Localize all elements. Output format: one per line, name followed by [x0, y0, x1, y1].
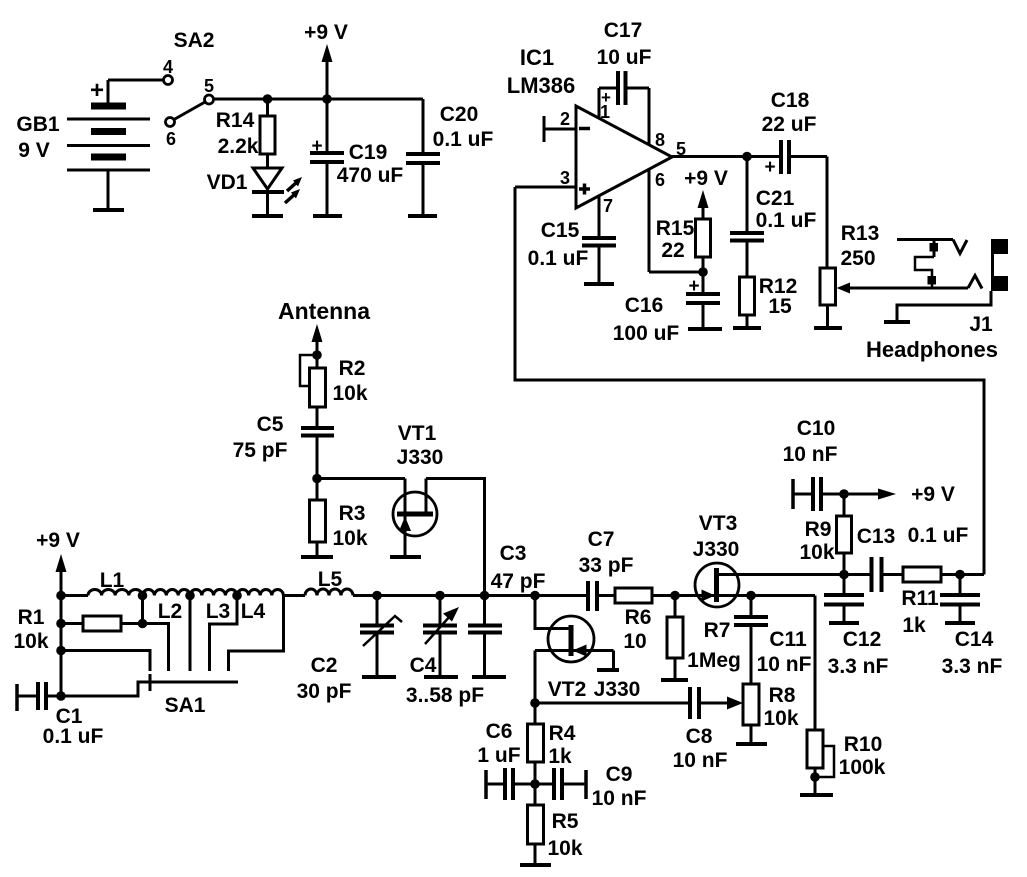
svg-text:3.3 nF: 3.3 nF — [828, 655, 889, 678]
capacitor C5 — [301, 428, 334, 479]
ground (C19) — [313, 214, 342, 218]
svg-text:10k: 10k — [332, 382, 367, 405]
svg-text:C21: C21 — [756, 187, 795, 210]
potentiometer R13 — [820, 268, 850, 328]
svg-text:C12: C12 — [843, 628, 882, 651]
svg-text:R5: R5 — [552, 810, 579, 833]
node (C2) — [372, 591, 382, 601]
svg-text:3..58 pF: 3..58 pF — [406, 684, 484, 707]
svg-text:R7: R7 — [704, 619, 731, 642]
svg-text:0.1 uF: 0.1 uF — [908, 524, 969, 547]
svg-text:47 pF: 47 pF — [491, 570, 546, 593]
svg-text:L1: L1 — [100, 569, 125, 592]
svg-text:C10: C10 — [797, 417, 836, 440]
svg-text:22: 22 — [661, 239, 684, 262]
node (rail/C1) — [56, 691, 66, 701]
node (rail/L1) — [56, 591, 66, 601]
svg-text:GB1: GB1 — [16, 113, 60, 136]
pin 2 input stub — [544, 116, 590, 142]
ground (C4) — [424, 675, 458, 679]
resistor R6 — [615, 588, 815, 603]
svg-text:10k: 10k — [547, 837, 582, 860]
ground (R8) — [736, 742, 767, 746]
capacitor C14 — [940, 575, 980, 624]
inductor L2 — [143, 590, 191, 596]
svg-text:+9 V: +9 V — [911, 483, 955, 506]
svg-text:15: 15 — [768, 295, 792, 318]
svg-text:C17: C17 — [604, 19, 643, 42]
node (VT2 gate tap) — [530, 591, 540, 601]
svg-text:0.1 uF: 0.1 uF — [756, 209, 817, 232]
wire (VT3 drain to R9) — [717, 573, 844, 576]
node (C11/R8) — [746, 591, 756, 601]
svg-text:1 uF: 1 uF — [477, 744, 520, 767]
ground (R13) — [814, 326, 842, 330]
battery GB1 — [67, 80, 163, 210]
+9V arrow (right) — [844, 489, 896, 500]
node (L3/L4) — [232, 591, 242, 601]
svg-text:R10: R10 — [844, 733, 883, 756]
node (VT2 gate bias) — [530, 698, 540, 708]
svg-text:C16: C16 — [625, 294, 664, 317]
svg-text:R3: R3 — [339, 502, 366, 525]
pin 7 wire — [598, 196, 601, 238]
svg-text:C11: C11 — [769, 628, 807, 651]
wire (VT1 drain to tank) — [426, 479, 485, 596]
+9V arrow (top) — [322, 44, 333, 99]
resistor R15 — [696, 219, 711, 272]
svg-text:5: 5 — [204, 76, 214, 96]
svg-text:10k: 10k — [763, 707, 798, 730]
svg-text:30 pF: 30 pF — [297, 680, 352, 703]
svg-text:R15: R15 — [656, 217, 695, 240]
svg-text:22 uF: 22 uF — [762, 113, 817, 136]
resistor R11 — [903, 567, 960, 582]
svg-text:2.2k: 2.2k — [218, 135, 259, 158]
transistor VT2 J330 — [535, 596, 614, 704]
potentiometer R8 — [743, 684, 759, 744]
svg-text:10 uF: 10 uF — [597, 46, 652, 69]
svg-text:8: 8 — [655, 130, 665, 150]
antenna arrow — [312, 324, 323, 355]
svg-text:0.1 uF: 0.1 uF — [528, 247, 589, 270]
potentiometer R10 (trimmer) — [807, 730, 834, 795]
svg-text:0.1 uF: 0.1 uF — [433, 128, 494, 151]
svg-text:C3: C3 — [500, 542, 527, 565]
svg-text:75 pF: 75 pF — [233, 439, 288, 462]
ground (C14) — [945, 621, 975, 625]
capacitor C12 — [824, 575, 864, 624]
ground (R5) — [520, 863, 551, 867]
LED VD1 — [252, 168, 302, 216]
node (L1/L2) — [138, 591, 148, 601]
svg-text:10 nF: 10 nF — [757, 653, 812, 676]
ground (C12) — [829, 621, 859, 625]
svg-text:10 nF: 10 nF — [592, 787, 647, 810]
svg-text:J330: J330 — [594, 678, 641, 701]
label GB1 — [16, 77, 104, 162]
op-amp IC1 LM386 — [576, 106, 672, 208]
svg-text:C7: C7 — [588, 528, 615, 551]
svg-text:R13: R13 — [841, 222, 880, 245]
ground (VT1 source) — [390, 555, 421, 559]
svg-text:C15: C15 — [541, 219, 580, 242]
svg-text:L3: L3 — [206, 600, 231, 623]
svg-text:VT2: VT2 — [548, 678, 587, 701]
ground (battery) — [93, 208, 124, 212]
svg-text:1k: 1k — [902, 614, 926, 637]
capacitor C9 — [535, 768, 586, 800]
node (R11/C14) — [955, 570, 965, 580]
resistor R12 — [740, 277, 755, 328]
resistor R4 — [528, 703, 544, 784]
capacitor C15 — [582, 238, 616, 284]
node (C5/R3/VT1 gate) — [312, 474, 322, 484]
node (rail/SA1 feed) — [56, 646, 66, 656]
svg-text:3.3 nF: 3.3 nF — [942, 655, 1003, 678]
pin 1 stub — [598, 88, 601, 118]
node (R9/C13/C12) — [839, 570, 849, 580]
node (R10 bottom) — [810, 772, 820, 782]
capacitor C3 — [468, 596, 502, 678]
capacitor C19 — [310, 99, 344, 216]
wire (pin3 feedback long) — [515, 187, 984, 575]
capacitor C20 — [406, 99, 440, 216]
node (C4) — [435, 591, 445, 601]
wire (rail to L1) — [61, 594, 88, 597]
capacitor C17 — [599, 71, 649, 105]
wire (main line down to R10) — [814, 596, 817, 731]
wire (L1L2 junction down) — [141, 596, 144, 624]
svg-text:1: 1 — [600, 102, 610, 122]
ground (R7) — [661, 678, 688, 682]
svg-text:R6: R6 — [625, 606, 652, 629]
svg-text:250: 250 — [840, 247, 875, 270]
svg-text:+: + — [764, 157, 775, 178]
switch SA2 — [164, 76, 268, 127]
switch SA1 contact 2 — [189, 596, 192, 672]
svg-text:Headphones: Headphones — [866, 337, 998, 362]
resistor R7 — [667, 596, 683, 681]
svg-text:10 nF: 10 nF — [783, 443, 838, 466]
svg-text:L4: L4 — [241, 600, 266, 623]
capacitor C13 — [844, 557, 903, 592]
pin 6 wire — [649, 169, 703, 272]
output wire pin 5 — [672, 155, 747, 158]
resistor R9 — [837, 494, 852, 575]
svg-text:L5: L5 — [318, 568, 343, 591]
+9V arrow (left rail) — [56, 554, 67, 696]
svg-text:C18: C18 — [771, 89, 810, 112]
wire (gate to VT1) — [317, 477, 405, 480]
svg-text:+: + — [90, 77, 104, 104]
svg-text:R14: R14 — [216, 109, 255, 132]
jack J1 wiper wire — [847, 287, 968, 290]
wire (bias to C8) — [535, 702, 690, 705]
ground (C3) — [472, 675, 506, 679]
variable capacitor C4 — [423, 596, 459, 678]
resistor R2 (trimmer) — [300, 355, 326, 428]
node (pin6/R15/C16) — [698, 267, 708, 277]
capacitor C11 — [734, 596, 768, 685]
svg-text:470 uF: 470 uF — [337, 164, 404, 187]
svg-text:3: 3 — [560, 168, 570, 188]
svg-text:10: 10 — [623, 630, 646, 653]
variable capacitor C2 — [360, 596, 402, 678]
inductor L4 — [237, 589, 283, 595]
svg-text:100k: 100k — [839, 756, 886, 779]
pin 3 input — [515, 184, 590, 195]
ground (J1) — [884, 320, 910, 324]
svg-text:6: 6 — [655, 170, 665, 190]
node (antenna/R2) — [312, 350, 322, 360]
svg-text:10k: 10k — [332, 527, 367, 550]
svg-text:R1: R1 — [18, 606, 45, 629]
inductor L3 — [190, 590, 237, 596]
svg-text:C9: C9 — [606, 763, 633, 786]
svg-text:J330: J330 — [397, 446, 444, 469]
svg-text:R2: R2 — [339, 357, 366, 380]
svg-text:10 nF: 10 nF — [673, 749, 728, 772]
svg-text:J330: J330 — [693, 538, 740, 561]
ground (R10) — [800, 793, 833, 797]
transistor VT1 J330 — [393, 479, 437, 558]
svg-text:9 V: 9 V — [18, 139, 50, 162]
svg-text:6: 6 — [166, 129, 176, 149]
svg-text:J1: J1 — [969, 313, 993, 336]
svg-text:C19: C19 — [349, 141, 388, 164]
ground (C16) — [688, 327, 722, 331]
svg-text:100 uF: 100 uF — [613, 322, 680, 345]
wire (supply top) — [268, 98, 424, 101]
capacitor C8 with arrow to R8 — [690, 687, 743, 719]
node (C10/R9) — [839, 489, 849, 499]
svg-text:10k: 10k — [13, 630, 48, 653]
resistor R1 — [61, 616, 143, 631]
node (L2/L3) — [185, 591, 195, 601]
svg-text:C13: C13 — [857, 525, 896, 548]
+9V arrow (R15) — [698, 190, 709, 219]
capacitor C18 — [747, 140, 827, 174]
svg-text:C8: C8 — [686, 725, 713, 748]
svg-text:+9 V: +9 V — [36, 529, 80, 552]
svg-text:C2: C2 — [311, 654, 338, 677]
jack J1 headphones — [897, 239, 1008, 322]
pin 8 wire — [648, 88, 651, 145]
resistor R5 — [528, 784, 544, 865]
svg-text:C14: C14 — [955, 628, 994, 651]
switch SA1 pole — [61, 674, 238, 696]
svg-text:1k: 1k — [548, 745, 572, 768]
switch SA1 contact 1 — [143, 624, 169, 672]
capacitor C1 — [17, 682, 61, 711]
svg-text:VT3: VT3 — [699, 512, 738, 535]
svg-text:Antenna: Antenna — [278, 298, 370, 324]
resistor R3 — [310, 479, 326, 558]
svg-text:2: 2 — [560, 109, 570, 129]
svg-text:SA2: SA2 — [174, 29, 215, 52]
svg-text:+: + — [311, 136, 322, 157]
inductor L5 — [305, 589, 353, 596]
resistor R14 — [260, 99, 275, 169]
svg-text:C5: C5 — [257, 413, 284, 436]
svg-text:C20: C20 — [440, 103, 479, 126]
svg-text:+9 V: +9 V — [304, 21, 348, 44]
capacitor C10 — [793, 477, 844, 511]
ground (C20) — [408, 214, 437, 218]
svg-text:7: 7 — [603, 196, 613, 216]
svg-text:+9 V: +9 V — [684, 167, 728, 190]
node (output) — [742, 152, 752, 162]
node (C3/VT1 drain) — [480, 591, 490, 601]
svg-text:IC1: IC1 — [520, 45, 554, 70]
capacitor C6 — [486, 768, 535, 800]
switch SA1 wiper feed — [61, 651, 150, 672]
label SA2 — [163, 29, 214, 149]
node (R7) — [670, 591, 680, 601]
wire (L4 to L5) — [284, 594, 306, 597]
node (R1/L1L2 tap) — [138, 619, 148, 629]
svg-text:C4: C4 — [410, 654, 437, 677]
node (R4/R5/C6/C9) — [530, 779, 540, 789]
svg-text:R9: R9 — [805, 518, 832, 541]
svg-text:+: + — [688, 276, 699, 297]
capacitor C7 — [588, 581, 615, 611]
capacitor C16 — [686, 272, 720, 329]
svg-text:VD1: VD1 — [207, 171, 248, 194]
svg-text:LM386: LM386 — [507, 73, 575, 98]
svg-text:0.1 uF: 0.1 uF — [43, 725, 104, 748]
svg-text:33 pF: 33 pF — [579, 554, 634, 577]
node (C19 top) — [322, 94, 332, 104]
svg-text:SA1: SA1 — [165, 694, 206, 717]
wire (to feedback) — [960, 573, 984, 576]
ground (C15) — [584, 282, 614, 286]
node (R14 top) — [263, 94, 273, 104]
svg-text:L2: L2 — [158, 600, 183, 623]
wire (main tank line) — [353, 594, 588, 597]
capacitor C21 — [730, 157, 764, 278]
node (rail/R1) — [56, 619, 66, 629]
svg-text:10k: 10k — [799, 541, 834, 564]
svg-text:1Meg: 1Meg — [687, 649, 741, 672]
svg-text:4: 4 — [163, 57, 173, 77]
svg-text:R11: R11 — [901, 587, 939, 610]
wire (C18 to R13) — [826, 157, 829, 269]
svg-text:R8: R8 — [769, 684, 796, 707]
transistor VT3 J330 — [695, 563, 740, 607]
switch SA1 contact 3 — [210, 596, 238, 672]
ground (R3) — [301, 555, 333, 559]
ground (VD1) — [252, 214, 283, 218]
svg-text:C6: C6 — [486, 720, 513, 743]
ground (R12) — [733, 326, 761, 330]
svg-text:VT1: VT1 — [398, 422, 437, 445]
svg-text:R4: R4 — [549, 722, 576, 745]
ground (C2) — [362, 675, 396, 679]
ground (VT2 source) — [597, 668, 619, 672]
switch SA1 contact 4 — [229, 596, 284, 672]
inductor L1 — [88, 590, 142, 596]
